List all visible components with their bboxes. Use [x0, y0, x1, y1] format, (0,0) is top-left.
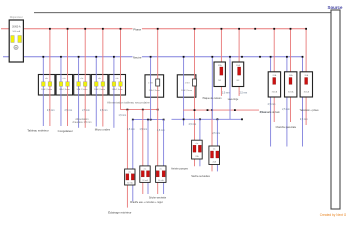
wire phase drop to F2	[142, 110, 144, 194]
svg-text:500 mA: 500 mA	[13, 30, 21, 33]
svg-text:Congélateur: Congélateur	[58, 129, 73, 133]
wire phase drop to C4	[102, 29, 104, 127]
wire neutral output C9	[286, 97, 288, 147]
wire neutral drop to F1	[132, 120, 134, 202]
breaker C3 poles	[77, 82, 81, 87]
wire neutral drop to C10	[302, 57, 304, 72]
wire phase output C8	[273, 97, 275, 122]
svg-text:2,5 mm: 2,5 mm	[240, 92, 248, 94]
svg-text:Télévision + prises: Télévision + prises	[299, 109, 319, 112]
wire neutral drop to C4	[95, 57, 97, 127]
svg-text:30 mA: 30 mA	[127, 181, 133, 184]
svg-text:Plaque de cuisson: Plaque de cuisson	[203, 98, 222, 100]
junction dots on buses (spare taps)	[254, 28, 256, 30]
svg-text:16A 2,5mm: 16A 2,5mm	[112, 88, 123, 91]
svg-text:30 mA: 30 mA	[142, 179, 148, 182]
wire neutral drop to F2	[147, 120, 149, 194]
svg-text:Sèche-serviettes: Sèche-serviettes	[191, 175, 210, 178]
svg-text:Tableau extérieur: Tableau extérieur	[27, 129, 49, 133]
svg-text:Alimentation tableau secondair: Alimentation tableau secondaire	[107, 100, 150, 104]
svg-text:20A 2,5mm: 20A 2,5mm	[149, 89, 160, 92]
node Neutre label	[133, 54, 142, 58]
svg-text:1,5 mm: 1,5 mm	[139, 129, 147, 131]
svg-text:Lave-linge: Lave-linge	[228, 99, 239, 101]
wire neutral drop to C5	[113, 57, 115, 128]
wire neutral rail 2	[172, 118, 243, 120]
earth rail (right side busbar)	[331, 10, 340, 209]
svg-text:clic: clic	[159, 168, 162, 170]
wire neutral bus	[3, 56, 303, 58]
svg-text:30mA: 30mA	[288, 90, 294, 93]
wire phase drop to F1	[126, 110, 128, 208]
svg-text:2,5 mm: 2,5 mm	[282, 109, 290, 111]
wire phase drop to C3	[84, 29, 86, 128]
breaker C2 (2P)	[56, 75, 73, 96]
breaker C5 (2P)	[109, 75, 126, 96]
node Phase label	[133, 26, 142, 30]
wire phase drop to F5	[211, 110, 213, 171]
wire neutral drop to C9	[286, 57, 288, 72]
wire phase drop to C9	[290, 29, 292, 72]
wire phase rail 2	[183, 109, 259, 111]
svg-text:clic: clic	[144, 168, 147, 170]
breaker C2 poles	[59, 82, 63, 87]
svg-text:Neutre: Neutre	[133, 55, 142, 59]
wire phase bus	[1, 28, 306, 30]
svg-text:2,5 mm: 2,5 mm	[82, 110, 90, 112]
svg-text:20A: 20A	[289, 74, 293, 77]
wire neutral drop to K2	[183, 57, 185, 126]
wire neutral drop to F3	[163, 120, 165, 194]
svg-text:30mA: 30mA	[304, 90, 310, 93]
svg-text:clic: clic	[196, 143, 199, 145]
svg-text:30/60 A: 30/60 A	[12, 26, 21, 29]
svg-text:Arrivée pompes: Arrivée pompes	[171, 167, 189, 170]
svg-text:clic: clic	[213, 149, 216, 151]
svg-text:Micro ondes: Micro ondes	[95, 128, 111, 132]
wire phase drop through K2 to F4	[194, 29, 196, 140]
svg-text:20A: 20A	[273, 74, 277, 77]
svg-text:2,5 mm: 2,5 mm	[212, 133, 220, 135]
svg-text:20A 2,5mm: 20A 2,5mm	[181, 89, 192, 92]
svg-text:Sèche-serviette: Sèche-serviette	[149, 196, 167, 199]
breaker C4 (2P)	[91, 75, 108, 96]
svg-text:2,5 mm: 2,5 mm	[65, 110, 73, 112]
contactor K1 (1 NO)	[145, 75, 164, 97]
svg-text:20A: 20A	[304, 74, 308, 77]
svg-text:30 mA: 30 mA	[158, 179, 164, 182]
wire phase output F3	[157, 182, 159, 194]
wire neutral drop beside C6 to rail	[211, 57, 213, 120]
wire phase drop to C5	[120, 29, 122, 110]
wire neutral drop beside C7 to rail	[229, 57, 231, 120]
wire phase drop to C7	[238, 29, 240, 96]
svg-text:1 NO: 1 NO	[148, 83, 153, 85]
svg-text:chaudière 1,5 mm: chaudière 1,5 mm	[72, 121, 91, 124]
wire neutral output C10	[302, 97, 304, 147]
main breaker dial 63A	[14, 45, 18, 49]
svg-text:16A 2,5mm: 16A 2,5mm	[59, 88, 70, 91]
svg-text:Chauffe eau + cumulus + régul.: Chauffe eau + cumulus + régul.	[130, 201, 164, 204]
breaker C4 poles	[94, 82, 98, 87]
wire neutral drop to K1	[150, 57, 152, 120]
svg-text:Éclairage extérieur: Éclairage extérieur	[108, 210, 131, 215]
svg-text:2,5 mm: 2,5 mm	[47, 110, 55, 112]
svg-text:2,5 mm: 2,5 mm	[268, 104, 276, 106]
svg-text:2,5 mm: 2,5 mm	[189, 124, 197, 126]
svg-text:1,5 mm: 1,5 mm	[118, 115, 126, 117]
wire phase output C10	[305, 97, 307, 125]
svg-text:Created by Next G: Created by Next G	[320, 213, 347, 217]
svg-text:2,5 mm: 2,5 mm	[222, 92, 230, 94]
wire neutral drop to F4	[199, 119, 201, 166]
wire earth feed to earth rail	[34, 12, 331, 14]
breaker C3 (2P)	[74, 75, 91, 96]
wire neutral rail 1	[133, 119, 164, 121]
wire phase drop to C6	[220, 29, 222, 96]
svg-text:Prises salle de bain: Prises salle de bain	[260, 111, 281, 114]
svg-text:1,5 mm: 1,5 mm	[127, 129, 135, 131]
main circuit breaker (disjoncteur de branchement)	[9, 15, 23, 62]
wire phase rail 1	[121, 109, 158, 111]
wire neutral drop to C1	[42, 57, 44, 126]
wire phase output F4	[194, 159, 196, 166]
wire phase drop to C8	[273, 29, 275, 72]
wire phase drop to C1	[49, 29, 51, 126]
svg-text:clic: clic	[128, 171, 131, 173]
contactor K1 contact symbol	[156, 79, 160, 86]
wire phase drop to C10	[305, 29, 307, 72]
svg-text:16A 2,5mm: 16A 2,5mm	[41, 88, 52, 91]
svg-text:1 NO: 1 NO	[185, 83, 190, 85]
svg-text:32A: 32A	[218, 64, 222, 67]
svg-text:16A 2,5mm: 16A 2,5mm	[76, 88, 87, 91]
svg-text:Phase: Phase	[133, 27, 141, 31]
wire phase drop through K1 to F3	[157, 29, 159, 166]
svg-text:1,5 mm: 1,5 mm	[157, 130, 165, 132]
breaker C5 poles	[112, 82, 116, 87]
svg-text:2,5 mm: 2,5 mm	[300, 119, 308, 121]
breaker C1 (2P)	[38, 75, 55, 96]
wire phase drop to C2	[67, 29, 69, 126]
wire neutral drop to C3	[78, 57, 80, 128]
svg-text:Source: Source	[328, 5, 343, 10]
contactor K2 contact symbol	[193, 79, 197, 86]
svg-text:Chambre parentale: Chambre parentale	[276, 126, 297, 129]
wire neutral drop to C8	[270, 57, 272, 72]
svg-text:2,5 mm: 2,5 mm	[100, 110, 108, 112]
svg-text:32A: 32A	[236, 64, 240, 67]
main breaker poles	[11, 36, 14, 43]
wire neutral drop to F5	[216, 119, 218, 171]
svg-text:Disjoncteur: Disjoncteur	[10, 15, 23, 19]
svg-text:30mA: 30mA	[272, 90, 278, 93]
wire phase output C9	[290, 97, 292, 122]
wire neutral drop to C2	[60, 57, 62, 126]
svg-text:16A 2,5mm: 16A 2,5mm	[94, 88, 105, 91]
breaker C1 poles	[42, 82, 46, 87]
wire neutral output C8	[270, 97, 272, 147]
contactor K2 (1 NO)	[177, 75, 196, 97]
